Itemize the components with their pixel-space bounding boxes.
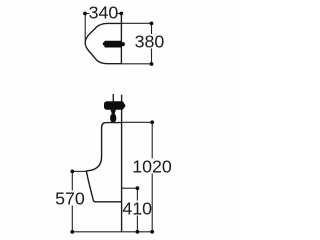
svg-text:340: 340 [89,3,119,23]
svg-text:380: 380 [135,32,165,52]
svg-text:410: 410 [122,199,152,219]
svg-text:1020: 1020 [132,157,172,177]
svg-text:570: 570 [55,189,85,209]
